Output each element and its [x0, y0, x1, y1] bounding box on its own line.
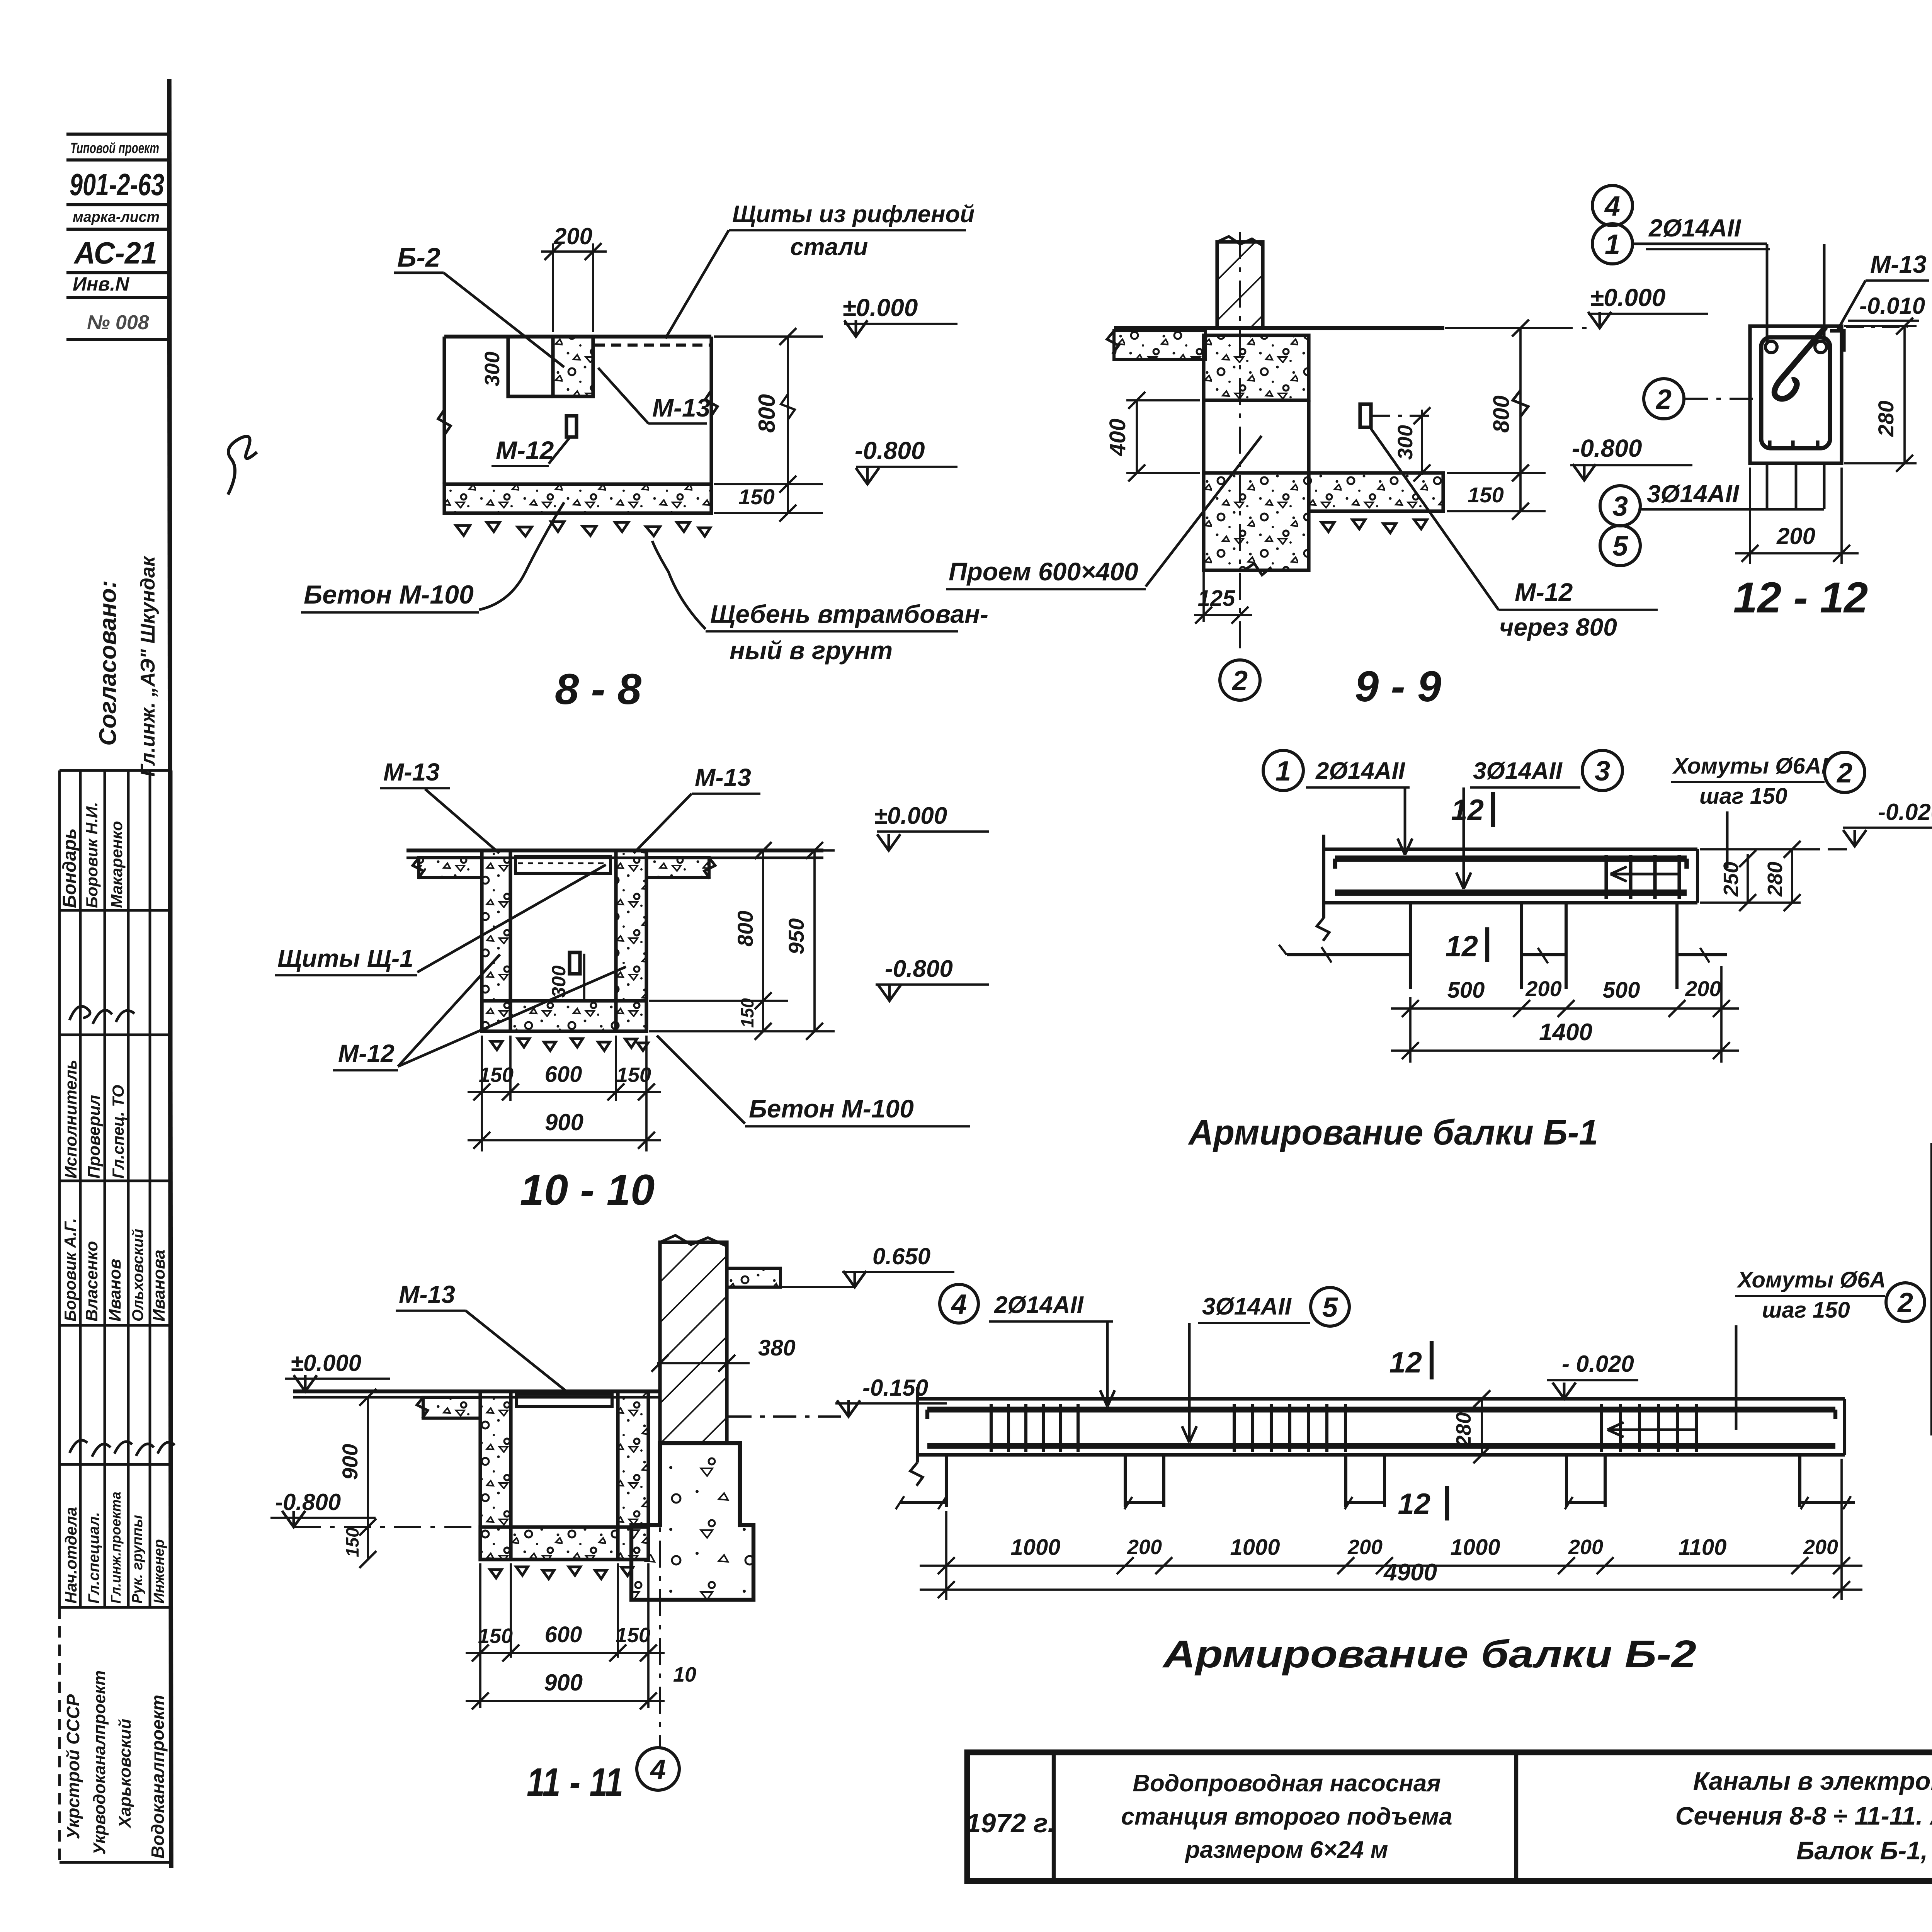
svg-text:№ 008: № 008	[87, 311, 149, 334]
svg-text:200: 200	[1685, 976, 1721, 1001]
svg-text:шаг 150: шаг 150	[1699, 784, 1787, 809]
svg-text:Бетон М-100: Бетон М-100	[749, 1094, 914, 1123]
11-11 right wall	[618, 1391, 648, 1560]
11-11 cover plate	[517, 1394, 612, 1406]
svg-text:300: 300	[1394, 425, 1417, 460]
svg-text:-0.010: -0.010	[1859, 293, 1925, 319]
svg-text:5: 5	[1612, 531, 1628, 562]
svg-text:Боровик А.Г.: Боровик А.Г.	[61, 1218, 79, 1321]
svg-text:200: 200	[1347, 1536, 1383, 1559]
left slab break	[1107, 331, 1119, 354]
svg-text:шаг 150: шаг 150	[1762, 1298, 1850, 1323]
svg-text:1000: 1000	[1230, 1535, 1280, 1560]
B-2 supports below	[945, 1455, 948, 1507]
12-12 outer rect	[1750, 326, 1842, 463]
svg-text:Бондарь: Бондарь	[60, 828, 80, 908]
svg-text:-0.800: -0.800	[855, 437, 925, 464]
B-2 beam outline	[917, 1397, 1845, 1400]
svg-text:Б-2: Б-2	[397, 242, 440, 272]
bottom dim 900	[468, 1139, 661, 1141]
svg-text:М-13: М-13	[1870, 250, 1927, 278]
axis circle 2 bottom	[1220, 660, 1260, 700]
section 8-8 steel sheet dashes	[595, 344, 710, 347]
svg-text:-0.020: -0.020	[1878, 799, 1932, 825]
svg-text:Гл.спец. ТО: Гл.спец. ТО	[109, 1085, 127, 1179]
svg-text:3: 3	[1612, 491, 1628, 522]
signature squiggle	[228, 436, 257, 495]
svg-text:250: 250	[1719, 862, 1743, 897]
anchor M-12 marker 9-9	[1360, 404, 1371, 427]
section 8-8 top slab line	[444, 335, 711, 338]
svg-text:800: 800	[733, 911, 757, 947]
svg-text:2Ø14АII: 2Ø14АII	[1648, 214, 1742, 242]
svg-text:280: 280	[1874, 401, 1898, 437]
svg-text:901-2-63: 901-2-63	[70, 167, 164, 202]
svg-text:±0.000: ±0.000	[842, 294, 918, 321]
bottom dims 150 600 150	[481, 1036, 483, 1151]
svg-text:М-12: М-12	[1515, 578, 1573, 606]
svg-text:Водопроводная насосная: Водопроводная насосная	[1133, 1770, 1440, 1797]
svg-text:150: 150	[737, 998, 757, 1028]
dim 900 bottom 11-11	[466, 1700, 665, 1702]
svg-text:Рук. группы: Рук. группы	[129, 1515, 146, 1604]
left table signatures B	[70, 1440, 175, 1457]
svg-text:±0.000: ±0.000	[291, 1350, 361, 1376]
svg-text:1000: 1000	[1450, 1535, 1500, 1560]
section 8-8 recess step	[508, 337, 553, 396]
svg-text:950: 950	[784, 918, 808, 954]
svg-text:-0.800: -0.800	[1572, 434, 1642, 462]
11-11 wall hatched	[660, 1242, 727, 1443]
wall axis line and circle 4	[659, 1443, 661, 1747]
svg-text:2: 2	[1231, 665, 1248, 696]
12-12 rebar hook	[1774, 327, 1826, 399]
svg-text:4: 4	[1604, 191, 1620, 222]
callout 4 and 1 with 2ф14АII	[1592, 185, 1633, 226]
section 11-11	[270, 1235, 954, 1805]
svg-text:Водоканалпроект: Водоканалпроект	[148, 1695, 168, 1859]
svg-text:М-13: М-13	[399, 1281, 455, 1308]
svg-text:200: 200	[1127, 1536, 1162, 1559]
svg-text:280: 280	[1764, 862, 1787, 897]
concrete base band	[444, 484, 711, 513]
11-11 bottom slab	[480, 1527, 648, 1560]
svg-text:12: 12	[1389, 1346, 1422, 1379]
column axis dash line	[1239, 232, 1241, 657]
rubble triangles 9-9	[1321, 520, 1427, 533]
B-1 section mark 12 bottom	[1485, 927, 1489, 962]
B-2 dims 1000/200 row	[920, 1565, 1862, 1567]
svg-text:Иванов: Иванов	[105, 1259, 124, 1321]
org block bottom line	[58, 1607, 61, 1862]
svg-text:500: 500	[1447, 978, 1485, 1003]
svg-text:150: 150	[616, 1063, 651, 1087]
svg-text:4900: 4900	[1383, 1559, 1437, 1586]
svg-text:- 0.020: - 0.020	[1562, 1351, 1634, 1377]
svg-text:Проверил: Проверил	[85, 1095, 104, 1179]
svg-text:Боровик Н.И.: Боровик Н.И.	[83, 802, 101, 908]
dimension 300 marker	[1371, 415, 1430, 417]
beam B-1 reinforcement drawing	[1188, 750, 1932, 1152]
B-1 bottom rebar	[1335, 889, 1687, 896]
left table signatures A	[70, 1006, 134, 1024]
svg-text:Балок Б-1, Б-2.: Балок Б-1, Б-2.	[1796, 1836, 1932, 1865]
svg-text:1100: 1100	[1679, 1535, 1727, 1560]
svg-text:Гл.инж. „АЭ" Шкундак: Гл.инж. „АЭ" Шкундак	[137, 555, 159, 777]
svg-text:станция второго подъема: станция второго подъема	[1121, 1803, 1452, 1830]
svg-text:-0.800: -0.800	[885, 956, 953, 982]
svg-text:М-13: М-13	[652, 393, 710, 422]
B-1 stirrups	[1604, 855, 1608, 899]
svg-text:Власенко: Власенко	[82, 1241, 101, 1321]
bottom dims 11-11	[479, 1563, 481, 1708]
svg-text:через 800: через 800	[1499, 613, 1617, 641]
svg-text:Хомуты Ø6А: Хомуты Ø6А	[1736, 1267, 1886, 1293]
section 10-10	[275, 758, 989, 1214]
B-2 section mark 12 bottom	[1445, 1486, 1449, 1520]
svg-text:200: 200	[1568, 1536, 1603, 1559]
svg-text:900: 900	[545, 1109, 583, 1135]
B-1 dim 250 280	[1700, 848, 1801, 850]
svg-text:200: 200	[553, 223, 592, 249]
beam B-2 reinforcement drawing	[896, 1267, 1925, 1676]
svg-text:1: 1	[1605, 229, 1620, 260]
svg-text:12 - 12: 12 - 12	[1733, 573, 1868, 622]
dimension 280 12-12	[1844, 325, 1917, 327]
11-11 rubble triangles	[490, 1567, 633, 1579]
svg-text:марка-лист: марка-лист	[73, 209, 160, 225]
section 12-12	[1592, 185, 1929, 622]
svg-text:4: 4	[951, 1289, 967, 1320]
callout 2 stirrup	[1644, 379, 1684, 419]
bottom bars leader verticals	[1766, 463, 1769, 509]
section 8-8	[301, 201, 988, 713]
footing upper stipple	[1204, 335, 1309, 400]
svg-text:10: 10	[673, 1663, 696, 1686]
svg-text:Инв.N: Инв.N	[73, 273, 129, 295]
10-10 left wall	[482, 850, 510, 1031]
section 8-8 left edge break	[438, 410, 451, 435]
svg-text:Харьковский: Харьковский	[116, 1719, 134, 1829]
svg-text:900: 900	[544, 1670, 583, 1696]
12-12 bottom bar ticks	[1770, 440, 1818, 450]
svg-text:1: 1	[1276, 756, 1291, 787]
svg-text:ный в грунт: ный в грунт	[730, 636, 893, 665]
svg-text:800: 800	[1489, 395, 1514, 433]
B-2 dim 280	[1481, 1399, 1483, 1455]
svg-text:Щиты из рифленой: Щиты из рифленой	[732, 201, 975, 228]
svg-text:150: 150	[342, 1527, 362, 1557]
10-10 M-12 marker	[570, 952, 580, 974]
B-1 dims 500 200 500 200	[1391, 1007, 1739, 1010]
right dims 800 950 150	[649, 849, 835, 852]
B-1 callout 1 2ф14АII	[1263, 750, 1303, 791]
B-1 dim 1400	[1391, 1049, 1739, 1052]
svg-text:М-12: М-12	[496, 436, 554, 464]
svg-text:4: 4	[650, 1754, 666, 1785]
svg-text:150: 150	[738, 485, 774, 509]
svg-text:±0.000: ±0.000	[874, 803, 947, 829]
svg-text:Согласовано:: Согласовано:	[95, 580, 121, 746]
svg-text:200: 200	[1803, 1536, 1838, 1559]
B-1 beam outline	[1324, 847, 1697, 851]
bottom title block frame	[967, 1752, 1932, 1881]
right dimension 800 and 150	[714, 335, 823, 338]
dimension 200 above pocket	[552, 243, 554, 332]
top-left stamp box	[66, 134, 169, 339]
svg-text:Хомуты Ø6АI: Хомуты Ø6АI	[1672, 753, 1828, 779]
svg-text:300: 300	[481, 352, 504, 386]
svg-text:150: 150	[616, 1624, 650, 1647]
svg-text:Щебень втрамбован-: Щебень втрамбован-	[710, 600, 988, 628]
svg-text:-0.800: -0.800	[275, 1489, 341, 1515]
svg-text:Нач.отдела: Нач.отдела	[62, 1507, 80, 1604]
column hatched	[1217, 242, 1263, 328]
svg-text:Укрстрой СССР: Укрстрой СССР	[63, 1694, 83, 1839]
svg-text:2: 2	[1897, 1287, 1913, 1318]
opening white gap	[1202, 400, 1205, 473]
svg-text:Иванова: Иванова	[150, 1250, 168, 1321]
svg-text:М-12: М-12	[338, 1039, 395, 1067]
left signature table grid	[60, 770, 171, 1607]
svg-text:±0.000: ±0.000	[1590, 284, 1665, 311]
11-11 floor double line	[293, 1389, 660, 1393]
12-12 stirrup inner rect	[1761, 337, 1830, 448]
svg-text:Гл.специал.: Гл.специал.	[85, 1512, 102, 1604]
svg-text:Исполнитель: Исполнитель	[61, 1060, 80, 1179]
footing bottom break	[1244, 563, 1271, 575]
svg-text:800: 800	[754, 394, 780, 433]
B-1 supports below	[1409, 903, 1412, 989]
svg-text:Сечения 8-8 ÷ 11-11. Армиро: Сечения 8-8 ÷ 11-11. Армирование	[1675, 1801, 1932, 1830]
svg-text:380: 380	[758, 1335, 796, 1361]
dimension 800/150 right 9-9	[1447, 327, 1546, 329]
B-2 stirrup group 2	[1233, 1404, 1236, 1452]
dim 900 150 left	[367, 1397, 369, 1560]
B-2 stirrup group 3	[1600, 1404, 1603, 1452]
10-10 floor double line	[406, 849, 823, 852]
12-12 bar dots	[1765, 341, 1777, 353]
10-10 left slab stipple	[419, 858, 482, 878]
svg-text:АС-21: АС-21	[73, 236, 157, 270]
B-2 section mark 12 top	[1430, 1341, 1434, 1379]
svg-text:2: 2	[1655, 384, 1672, 415]
svg-text:Макаренко: Макаренко	[107, 821, 126, 908]
B-2 bottom rebar	[927, 1443, 1835, 1449]
footing lower stipple	[1204, 473, 1309, 570]
section 8-8 right edge break	[705, 390, 718, 416]
svg-text:Гл.инж.проекта: Гл.инж.проекта	[108, 1492, 124, 1604]
svg-text:150: 150	[1468, 483, 1503, 507]
svg-text:400: 400	[1105, 418, 1130, 456]
svg-text:3Ø14АII: 3Ø14АII	[1647, 480, 1740, 508]
B-2 top rebar	[927, 1407, 1835, 1413]
svg-text:600: 600	[545, 1622, 582, 1647]
svg-text:9 - 9: 9 - 9	[1355, 662, 1441, 711]
svg-text:500: 500	[1603, 978, 1640, 1003]
left slab stipple band	[1114, 331, 1206, 359]
channel floor band right	[1309, 473, 1443, 511]
svg-text:12: 12	[1451, 794, 1484, 827]
column top break	[1217, 236, 1263, 246]
section 8-8 right wall edge	[709, 337, 713, 513]
top bars leader verticals	[1766, 244, 1769, 342]
10-10 cover plate	[515, 856, 611, 873]
svg-text:Каналы в электропомещений.: Каналы в электропомещений.	[1693, 1767, 1932, 1795]
svg-text:размером 6×24 м: размером 6×24 м	[1184, 1837, 1388, 1863]
svg-text:12: 12	[1445, 930, 1478, 963]
svg-text:5: 5	[1322, 1292, 1338, 1323]
svg-text:Типовой проект: Типовой проект	[70, 140, 159, 156]
11-11 footing	[631, 1443, 753, 1600]
B-1 section mark 12 top	[1491, 792, 1495, 827]
svg-text:2Ø14АII: 2Ø14АII	[994, 1292, 1084, 1318]
svg-text:стали: стали	[790, 234, 868, 260]
svg-text:3Ø14АII: 3Ø14АII	[1202, 1293, 1292, 1320]
svg-text:200: 200	[1525, 976, 1561, 1001]
B-2 stirrup group 1	[990, 1404, 993, 1452]
anchor M-12 marker	[566, 416, 577, 437]
callout 3 and 5 with 3ф14АII	[1600, 486, 1640, 526]
svg-text:2: 2	[1836, 758, 1852, 789]
rubble triangles under base	[456, 522, 710, 536]
svg-text:10 - 10: 10 - 10	[520, 1166, 655, 1214]
top slab line	[1114, 326, 1444, 330]
svg-text:1400: 1400	[1539, 1019, 1592, 1046]
svg-text:0.650: 0.650	[872, 1243, 930, 1269]
svg-text:280: 280	[1452, 1412, 1475, 1447]
B-2 callout 4 2ф14АII	[940, 1284, 978, 1323]
М-13 angle piece	[1830, 331, 1844, 352]
svg-text:900: 900	[338, 1444, 362, 1480]
svg-text:3Ø14АII: 3Ø14АII	[1473, 758, 1563, 784]
11-11 left slab stipple	[423, 1397, 480, 1418]
svg-text:150: 150	[478, 1624, 513, 1648]
B-2 dim 4900	[920, 1588, 1862, 1591]
svg-text:200: 200	[1776, 523, 1815, 549]
svg-text:Армирование балки Б-1: Армирование балки Б-1	[1188, 1113, 1598, 1152]
svg-text:150: 150	[479, 1063, 514, 1087]
svg-text:Бетон М-100: Бетон М-100	[304, 580, 474, 609]
svg-text:Инженер: Инженер	[151, 1539, 167, 1604]
svg-text:12: 12	[1398, 1488, 1430, 1520]
svg-text:Щиты Щ-1: Щиты Щ-1	[277, 944, 413, 972]
section 8-8 left wall edge	[442, 337, 446, 484]
dimension 200 12-12	[1749, 468, 1751, 564]
10-10 right wall	[616, 850, 646, 1031]
section 9-9	[946, 232, 1708, 711]
11-11 left wall	[480, 1391, 511, 1560]
10-10 right slab stipple	[646, 858, 709, 878]
svg-text:М-13: М-13	[383, 758, 440, 786]
svg-text:11 - 11: 11 - 11	[527, 1760, 623, 1805]
svg-text:Армирование балки Б-2: Армирование балки Б-2	[1162, 1633, 1696, 1676]
11-11 ledge	[727, 1268, 781, 1287]
svg-text:600: 600	[545, 1062, 582, 1087]
sheet frame left border	[169, 79, 171, 1868]
beam B-2 cross-section hatched pocket	[553, 337, 593, 396]
svg-text:М-13: М-13	[695, 764, 751, 791]
10-10 bottom slab	[482, 1001, 646, 1031]
svg-text:1000: 1000	[1010, 1535, 1060, 1560]
svg-text:1972 г.: 1972 г.	[966, 1808, 1055, 1838]
10-10 rubble triangles	[491, 1039, 648, 1051]
svg-text:Ольховский: Ольховский	[129, 1229, 146, 1321]
svg-text:2Ø14АII: 2Ø14АII	[1315, 758, 1406, 784]
svg-text:Проем 600×400: Проем 600×400	[949, 557, 1138, 586]
svg-text:8 - 8: 8 - 8	[555, 665, 642, 713]
B-2 stirrup arrows	[1607, 1429, 1696, 1431]
B-1 stirrup arrows	[1611, 873, 1681, 876]
svg-text:3: 3	[1595, 756, 1610, 787]
svg-text:Укрводоканалпроект: Укрводоканалпроект	[90, 1670, 109, 1855]
dimension 400 opening	[1126, 399, 1200, 401]
B-1 top rebar	[1335, 855, 1687, 862]
